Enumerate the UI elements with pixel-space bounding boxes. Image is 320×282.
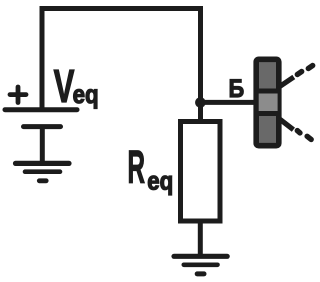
transistor block divider upper — [255, 89, 281, 94]
transistor block body (dark) — [256, 59, 279, 145]
battery V_eq plus sign — [10, 87, 26, 103]
node dot at B — [195, 97, 206, 108]
wire battery negative to ground — [40, 127, 45, 163]
collector dash 2 — [308, 66, 312, 69]
emitter dash 1 — [297, 131, 300, 133]
svg-text:Б: Б — [229, 75, 245, 103]
svg-text:V: V — [54, 60, 75, 112]
emitter dash 2 — [307, 136, 311, 139]
transistor base region (light) — [259, 94, 278, 112]
collector stub solid — [278, 77, 294, 88]
ground under battery — [16, 163, 70, 180]
svg-text:R: R — [128, 140, 146, 192]
wire resistor to ground — [198, 221, 203, 256]
label V_eq — [54, 60, 99, 112]
battery V_eq negative plate — [24, 124, 61, 129]
emitter stub solid — [278, 118, 293, 130]
svg-text:eq: eq — [147, 166, 173, 196]
wire top loop from battery + to node B — [42, 9, 201, 122]
wire node to transistor base — [201, 100, 256, 105]
collector dash 1 — [297, 72, 301, 75]
ground under resistor — [174, 256, 227, 274]
label R_eq — [128, 140, 174, 195]
transistor block divider lower — [255, 111, 281, 116]
resistor R_eq body — [181, 122, 221, 222]
svg-text:eq: eq — [73, 79, 99, 109]
battery V_eq positive plate — [5, 107, 77, 112]
